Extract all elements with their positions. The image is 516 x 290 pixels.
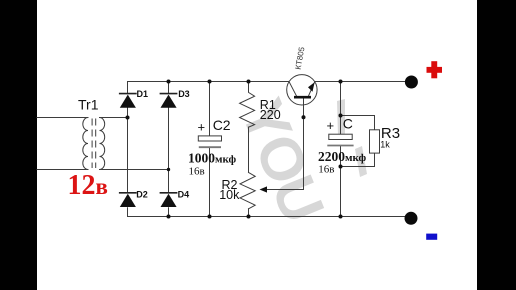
node dot transformer top to bridge: [126, 116, 130, 120]
transformer Tr1 core dashed lines: [92, 119, 96, 168]
wire bottom rail: [128, 216, 412, 218]
wire cap C to bottom rail: [340, 147, 342, 217]
wire bridge left branch D1 to D2: [127, 108, 129, 193]
svg-text:220: 220: [260, 108, 281, 122]
svg-text:D1: D1: [137, 89, 149, 99]
wire transformer primary bottom lead: [37, 169, 88, 171]
svg-text:C: C: [343, 115, 353, 131]
wire transformer secondary top lead to bridge left midpoint: [100, 117, 128, 119]
node dot transformer bottom to bridge: [167, 168, 170, 171]
node dot C top / R3: [339, 114, 343, 118]
capacitor C plates: [327, 134, 353, 145]
transistor Q1 base bar: [294, 96, 311, 99]
wire R2 to bottom rail: [248, 209, 250, 217]
wire R1 to R2: [248, 127, 250, 172]
svg-text:C2: C2: [213, 117, 231, 133]
diode D3: [160, 94, 178, 108]
svg-text:16в: 16в: [318, 163, 334, 175]
svg-text:+: +: [198, 120, 206, 135]
transformer Tr1 secondary winding: [100, 118, 105, 170]
svg-text:12в: 12в: [68, 170, 108, 201]
watermark YOU (main diagonal): [228, 90, 337, 230]
wire C2 branch top (rail to cap): [209, 82, 211, 136]
wire emitter node C branch vertical (rail to cap C): [340, 82, 342, 135]
node dot rail-D3: [167, 80, 171, 84]
wire transformer primary top lead: [37, 117, 88, 119]
plus sign red: [427, 61, 443, 78]
wire R2 wiper to transistor base: [262, 98, 304, 189]
minus sign blue: [426, 234, 437, 240]
watermark second diagonal fragment 1: [337, 99, 345, 136]
svg-text:16в: 16в: [189, 166, 205, 178]
svg-text:D3: D3: [178, 89, 190, 99]
wire transformer secondary bottom lead to bridge right midpoint: [100, 169, 169, 171]
svg-text:1k: 1k: [380, 139, 390, 149]
left black letterbox bar: [0, 0, 37, 290]
transistor Q1 collector line: [289, 81, 297, 96]
svg-text:1000мкф: 1000мкф: [188, 151, 237, 166]
output terminal plus dot: [405, 76, 418, 89]
wire C2 branch bottom (cap to bottom rail): [209, 148, 211, 217]
node dot bottom rail C2: [208, 215, 212, 219]
svg-text:Tr1: Tr1: [78, 96, 99, 112]
node dot C bottom / R3: [339, 165, 343, 169]
transistor Q1 emitter arrow: [308, 82, 315, 92]
node dot emitter-C branch: [339, 80, 343, 84]
wire bridge right branch rail to D3: [168, 82, 170, 93]
wire R3 branch top: [341, 116, 375, 130]
wire bridge right branch D4 to bottom rail: [168, 208, 170, 217]
wire R3 branch bottom: [341, 153, 375, 166]
transistor Q1 circle: [287, 75, 317, 105]
wire bridge right branch D3 to D4: [168, 108, 170, 193]
svg-text:+: +: [327, 118, 335, 133]
resistor R1 zigzag: [240, 82, 255, 128]
node dot bottom rail D4: [167, 215, 171, 219]
wire emitter rail to + terminal: [315, 81, 411, 83]
node dot bottom rail C branch: [339, 215, 343, 219]
diode D2: [119, 193, 137, 207]
resistor R3 box: [370, 130, 380, 153]
capacitor C2 plates: [198, 136, 221, 147]
node dot bottom rail R2: [247, 215, 251, 219]
svg-text:10k: 10k: [219, 188, 240, 202]
diode D1: [119, 94, 137, 108]
transistor Q1 emitter line: [309, 82, 315, 96]
diode D4: [160, 193, 178, 207]
potentiometer R2 wiper arrow: [260, 186, 268, 192]
output terminal minus dot: [405, 212, 418, 225]
wire top rail (bridge to transistor collector): [128, 81, 289, 83]
node dot rail-C2: [208, 80, 212, 84]
svg-text:2200мкф: 2200мкф: [318, 149, 367, 164]
watermark second diagonal fragment 2: [355, 146, 367, 177]
svg-text:D2: D2: [136, 189, 148, 199]
potentiometer R2 zigzag: [240, 172, 255, 208]
node dot rail-R1: [247, 80, 251, 84]
svg-text:D4: D4: [178, 189, 190, 199]
right black letterbox bar: [477, 0, 516, 290]
node dot base line: [302, 115, 306, 119]
wire bridge left branch D2 to bottom rail: [127, 208, 129, 217]
wire bridge left branch (D1 top to rail corner): [127, 82, 129, 93]
transformer Tr1 primary winding: [83, 118, 88, 170]
